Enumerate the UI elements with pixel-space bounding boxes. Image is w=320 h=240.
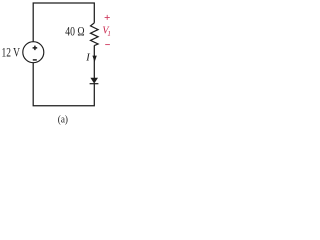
svg-text:I: I bbox=[85, 52, 91, 64]
wire from resistor bottom to diode anode bbox=[93, 45, 95, 78]
diode D1 cathode bar bbox=[90, 83, 99, 85]
wire from source bottom via bottom side to diode cathode bbox=[33, 63, 94, 106]
label V1 plus sign bbox=[105, 15, 110, 20]
label V1 minus sign bbox=[105, 44, 110, 46]
current arrow I bbox=[92, 56, 96, 62]
svg-text:12 V: 12 V bbox=[2, 46, 21, 60]
voltage source Vs 12 V bbox=[23, 42, 44, 63]
voltage source plus terminal bbox=[33, 46, 38, 51]
svg-text:V1: V1 bbox=[102, 26, 111, 38]
diode D1 triangle bbox=[90, 78, 98, 84]
svg-text:(a): (a) bbox=[58, 114, 68, 126]
voltage source minus terminal bbox=[33, 59, 37, 61]
resistor R1 40 ohm zigzag bbox=[91, 23, 99, 46]
wire from source top via top-left corner, top side, to resistor top bbox=[33, 3, 94, 42]
svg-text:40 Ω: 40 Ω bbox=[65, 24, 84, 38]
